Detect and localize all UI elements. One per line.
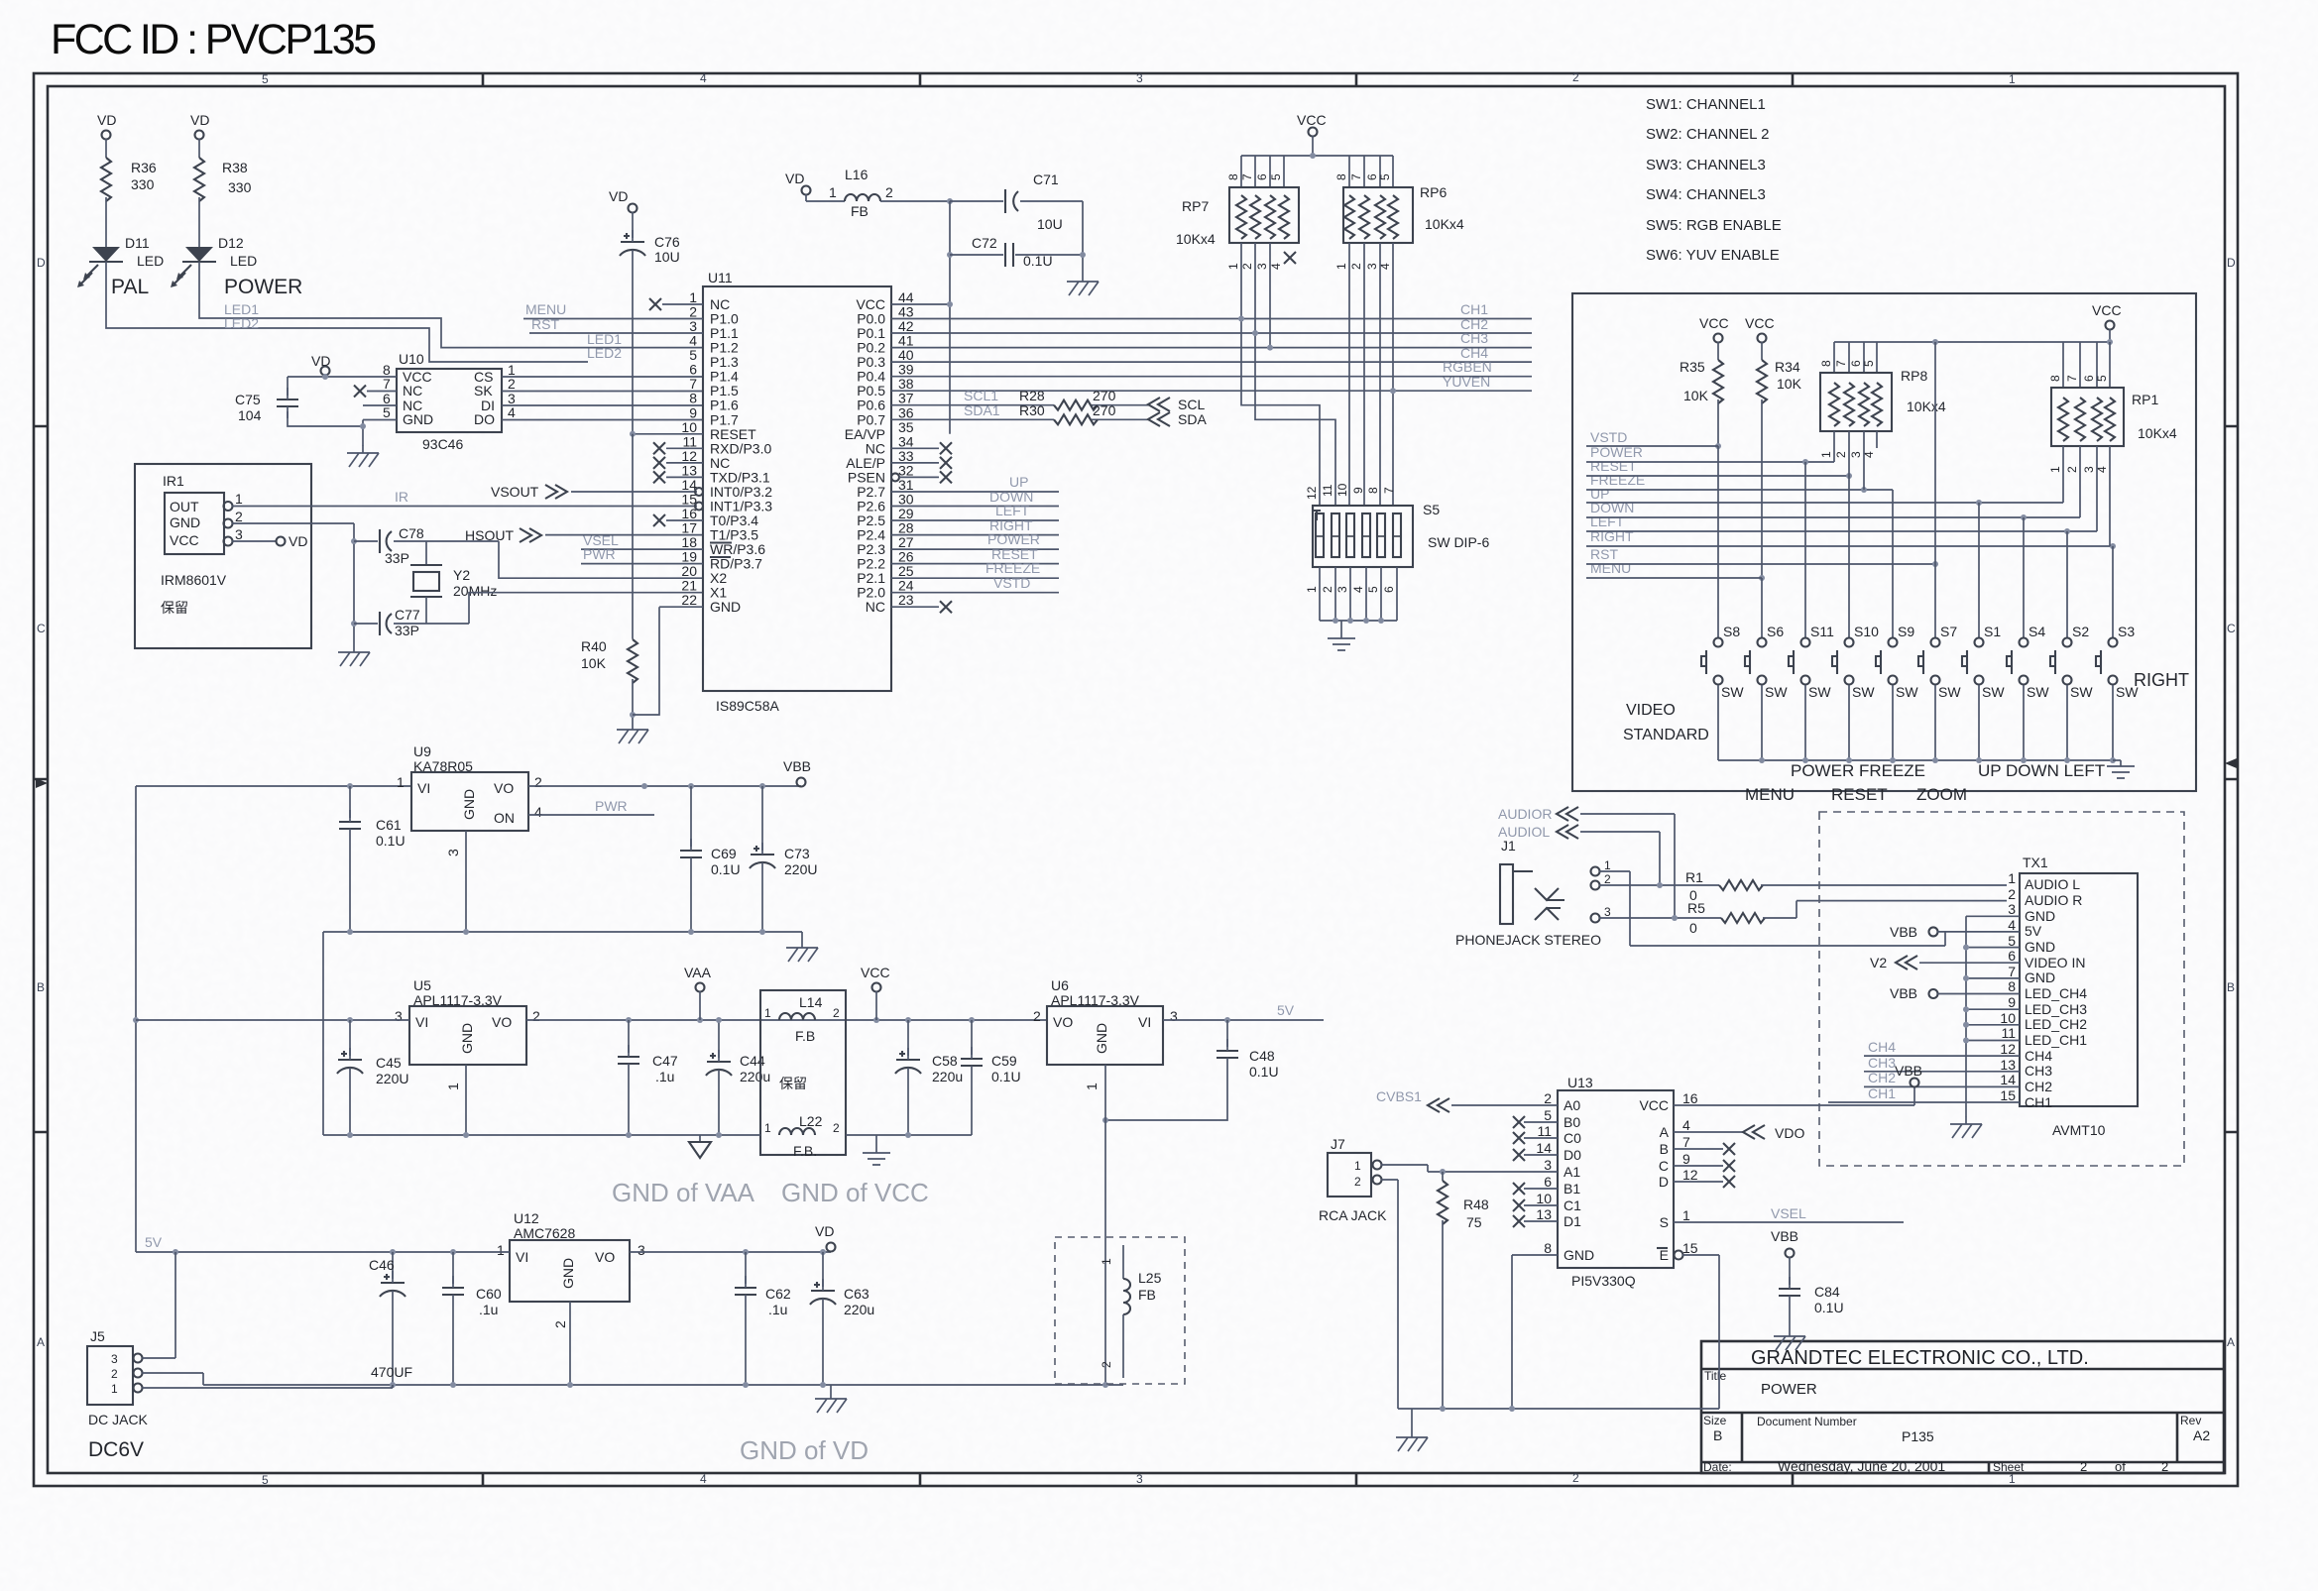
svg-text:SW6: YUV ENABLE: SW6: YUV ENABLE — [1646, 247, 1780, 264]
svg-text:5: 5 — [1366, 586, 1380, 593]
svg-text:R34: R34 — [1775, 359, 1800, 375]
svg-text:5: 5 — [689, 347, 697, 363]
svg-text:SW: SW — [1938, 684, 1961, 700]
svg-text:GND: GND — [403, 411, 433, 427]
svg-text:LED2: LED2 — [587, 345, 622, 361]
svg-text:B: B — [1660, 1141, 1669, 1157]
svg-text:3: 3 — [1849, 451, 1863, 458]
svg-text:GND: GND — [459, 1023, 475, 1054]
svg-text:R38: R38 — [222, 160, 248, 175]
svg-text:AVMT10: AVMT10 — [2052, 1122, 2106, 1138]
svg-text:AUDIO R: AUDIO R — [2025, 892, 2082, 908]
svg-text:40: 40 — [898, 347, 914, 363]
svg-text:RCA JACK: RCA JACK — [1319, 1207, 1387, 1223]
svg-text:V2: V2 — [1870, 955, 1887, 970]
svg-text:Size: Size — [1703, 1414, 1727, 1427]
svg-text:2: 2 — [2065, 466, 2079, 473]
svg-text:8: 8 — [2048, 375, 2062, 382]
svg-text:RP8: RP8 — [1901, 368, 1927, 384]
svg-text:VAA: VAA — [684, 965, 712, 980]
svg-text:.1u: .1u — [768, 1302, 787, 1317]
svg-text:2: 2 — [1572, 70, 1579, 84]
svg-text:R28: R28 — [1019, 388, 1045, 403]
svg-text:1: 1 — [1334, 263, 1348, 270]
svg-text:VO: VO — [494, 780, 514, 796]
svg-text:CH1: CH1 — [1868, 1085, 1896, 1101]
svg-text:VO: VO — [595, 1249, 615, 1265]
svg-text:L25: L25 — [1138, 1270, 1162, 1286]
svg-text:CH3: CH3 — [1460, 330, 1488, 346]
svg-text:C61: C61 — [376, 817, 402, 833]
svg-text:R40: R40 — [581, 638, 607, 654]
svg-text:2: 2 — [2008, 886, 2016, 902]
svg-text:CH2: CH2 — [2025, 1079, 2052, 1094]
svg-text:OUT: OUT — [170, 499, 199, 514]
svg-text:4: 4 — [1351, 586, 1365, 593]
svg-text:D: D — [2227, 256, 2236, 270]
svg-text:P0.3: P0.3 — [857, 354, 885, 370]
svg-text:C58: C58 — [932, 1053, 958, 1069]
svg-text:5V: 5V — [145, 1234, 163, 1250]
svg-text:S11: S11 — [1810, 624, 1834, 639]
svg-text:R1: R1 — [1685, 869, 1703, 885]
svg-text:6: 6 — [2008, 948, 2016, 964]
svg-text:VBB: VBB — [1890, 924, 1917, 940]
svg-text:IS89C58A: IS89C58A — [716, 698, 779, 714]
svg-text:CH3: CH3 — [2025, 1063, 2052, 1079]
svg-text:C75: C75 — [235, 392, 261, 407]
svg-text:POWER: POWER — [1761, 1381, 1817, 1398]
svg-text:10K: 10K — [581, 655, 607, 671]
svg-text:5: 5 — [1862, 360, 1876, 367]
svg-text:U12: U12 — [514, 1210, 539, 1226]
svg-text:GND: GND — [2025, 969, 2055, 985]
svg-text:6: 6 — [1849, 360, 1863, 367]
svg-text:LED_CH3: LED_CH3 — [2025, 1001, 2087, 1017]
svg-text:2: 2 — [532, 1008, 540, 1024]
svg-text:8: 8 — [689, 391, 697, 406]
svg-text:5V: 5V — [1277, 1002, 1295, 1018]
svg-text:GND: GND — [2025, 908, 2055, 924]
svg-text:9: 9 — [2008, 994, 2016, 1010]
svg-text:6: 6 — [1382, 586, 1396, 593]
svg-text:ON: ON — [494, 810, 515, 826]
svg-text:DC JACK: DC JACK — [88, 1412, 149, 1427]
svg-text:6: 6 — [1365, 173, 1379, 180]
svg-text:7: 7 — [2065, 375, 2079, 382]
svg-text:CH2: CH2 — [1868, 1070, 1896, 1085]
svg-text:FB: FB — [1138, 1287, 1156, 1303]
svg-text:2: 2 — [2080, 1459, 2087, 1474]
svg-text:0.1U: 0.1U — [711, 861, 741, 877]
svg-text:3: 3 — [1136, 1472, 1143, 1486]
svg-text:VD: VD — [289, 533, 307, 549]
svg-text:Rev: Rev — [2180, 1414, 2201, 1427]
svg-text:7: 7 — [383, 376, 391, 392]
svg-text:IR: IR — [395, 489, 408, 505]
svg-text:PWR: PWR — [583, 546, 616, 562]
svg-text:1: 1 — [397, 774, 405, 790]
svg-text:VD: VD — [190, 112, 209, 128]
svg-text:2: 2 — [1354, 1175, 1361, 1189]
svg-text:33P: 33P — [395, 623, 419, 638]
svg-text:VSOUT: VSOUT — [491, 484, 539, 500]
svg-text:GND of VAA: GND of VAA — [612, 1178, 755, 1207]
svg-text:2: 2 — [1100, 1361, 1113, 1368]
svg-text:APL1117-3.3V: APL1117-3.3V — [413, 992, 503, 1008]
svg-text:1: 1 — [1604, 858, 1611, 872]
svg-text:RP1: RP1 — [2132, 392, 2158, 407]
svg-text:VSTD: VSTD — [993, 575, 1030, 591]
svg-text:11: 11 — [1321, 484, 1334, 497]
svg-text:7: 7 — [2008, 964, 2016, 979]
svg-text:75: 75 — [1466, 1214, 1482, 1230]
svg-text:PI5V330Q: PI5V330Q — [1571, 1273, 1636, 1289]
svg-text:330: 330 — [228, 179, 252, 195]
svg-text:VI: VI — [1138, 1014, 1151, 1030]
svg-text:CH4: CH4 — [2025, 1048, 2052, 1064]
svg-text:C: C — [37, 622, 46, 635]
svg-text:S4: S4 — [2028, 624, 2045, 639]
svg-text:5: 5 — [262, 72, 269, 86]
svg-text:S1: S1 — [1984, 624, 2001, 639]
svg-text:GND of VCC: GND of VCC — [781, 1178, 929, 1207]
svg-text:11: 11 — [2001, 1025, 2016, 1041]
svg-text:Y2: Y2 — [453, 567, 470, 583]
svg-text:220U: 220U — [376, 1071, 408, 1086]
svg-text:T0/P3.4: T0/P3.4 — [710, 513, 758, 528]
svg-text:GND: GND — [560, 1258, 576, 1289]
svg-text:C63: C63 — [844, 1286, 869, 1302]
svg-text:R35: R35 — [1680, 359, 1705, 375]
svg-text:U11: U11 — [708, 270, 733, 285]
svg-text:D1: D1 — [1564, 1213, 1581, 1229]
svg-text:MENU: MENU — [1590, 560, 1631, 576]
svg-text:SCL1: SCL1 — [964, 388, 998, 403]
svg-text:J5: J5 — [90, 1328, 105, 1344]
svg-text:P2.5: P2.5 — [857, 513, 885, 528]
svg-text:GND: GND — [1094, 1023, 1109, 1054]
svg-text:GND: GND — [2025, 939, 2055, 955]
svg-text:A0: A0 — [1564, 1097, 1580, 1113]
svg-text:POWER: POWER — [987, 531, 1040, 547]
svg-text:F.B.: F.B. — [793, 1143, 817, 1159]
svg-text:J7: J7 — [1331, 1136, 1345, 1152]
svg-text:GRANDTEC ELECTRONIC CO., LTD.: GRANDTEC ELECTRONIC CO., LTD. — [1751, 1347, 2089, 1369]
svg-text:.1u: .1u — [479, 1302, 498, 1317]
svg-text:2: 2 — [1349, 263, 1363, 270]
svg-text:U6: U6 — [1051, 977, 1069, 993]
svg-text:LED_CH1: LED_CH1 — [2025, 1032, 2087, 1048]
svg-text:S8: S8 — [1723, 624, 1740, 639]
svg-text:330: 330 — [131, 176, 155, 192]
svg-text:1: 1 — [1100, 1258, 1113, 1265]
svg-text:A1: A1 — [1564, 1164, 1580, 1180]
svg-text:U13: U13 — [1567, 1075, 1593, 1090]
svg-text:SW: SW — [1808, 684, 1831, 700]
svg-text:POWER: POWER — [224, 276, 302, 298]
svg-text:11: 11 — [1537, 1123, 1552, 1139]
svg-text:SW: SW — [1982, 684, 2005, 700]
svg-text:保留: 保留 — [161, 600, 188, 616]
svg-text:93C46: 93C46 — [422, 436, 463, 452]
svg-text:NC: NC — [866, 440, 885, 456]
svg-text:ZOOM: ZOOM — [1916, 785, 1967, 804]
svg-text:4: 4 — [2008, 917, 2016, 933]
svg-text:220u: 220u — [932, 1069, 963, 1084]
svg-text:3: 3 — [395, 1008, 403, 1024]
svg-text:LED_CH4: LED_CH4 — [2025, 985, 2087, 1001]
svg-text:SK: SK — [474, 383, 493, 399]
svg-text:RST: RST — [531, 316, 559, 332]
svg-text:0.1U: 0.1U — [376, 833, 406, 849]
svg-text:P135: P135 — [1902, 1428, 1934, 1444]
svg-text:C47: C47 — [652, 1053, 678, 1069]
svg-text:C73: C73 — [784, 846, 810, 861]
svg-text:S6: S6 — [1767, 624, 1784, 639]
svg-text:SW: SW — [2027, 684, 2049, 700]
svg-text:B1: B1 — [1564, 1181, 1580, 1197]
svg-text:VCC: VCC — [1297, 112, 1327, 128]
svg-text:1: 1 — [764, 1006, 771, 1020]
svg-text:1: 1 — [1819, 451, 1833, 458]
svg-text:R48: R48 — [1463, 1197, 1489, 1212]
svg-text:TX1: TX1 — [2023, 855, 2048, 870]
svg-text:YUVEN: YUVEN — [1443, 374, 1490, 390]
svg-text:1: 1 — [1084, 1083, 1100, 1090]
svg-text:SW1: CHANNEL1: SW1: CHANNEL1 — [1646, 96, 1766, 113]
svg-text:0.1U: 0.1U — [991, 1069, 1021, 1084]
svg-text:A: A — [37, 1335, 45, 1349]
svg-text:8: 8 — [2008, 978, 2016, 994]
svg-text:L14: L14 — [799, 994, 823, 1010]
svg-text:0: 0 — [1689, 920, 1697, 936]
svg-text:D12: D12 — [218, 235, 244, 251]
svg-text:5: 5 — [1544, 1107, 1552, 1123]
svg-text:Sheet: Sheet — [1993, 1460, 2025, 1474]
svg-text:GND: GND — [710, 599, 741, 615]
svg-text:10K: 10K — [1683, 388, 1709, 403]
svg-text:C: C — [2227, 622, 2236, 635]
svg-text:SW: SW — [2070, 684, 2093, 700]
svg-text:7: 7 — [1240, 173, 1254, 180]
svg-text:LED: LED — [137, 253, 164, 269]
svg-text:NC: NC — [403, 383, 422, 399]
svg-text:POWER FREEZE: POWER FREEZE — [1791, 761, 1925, 780]
svg-text:1: 1 — [1305, 586, 1319, 593]
svg-text:MENU: MENU — [525, 301, 566, 317]
svg-text:B: B — [2227, 980, 2235, 994]
svg-text:VDO: VDO — [1775, 1125, 1804, 1141]
svg-text:3: 3 — [1136, 71, 1143, 85]
svg-text:15: 15 — [2000, 1087, 2016, 1103]
svg-text:GND of VD: GND of VD — [740, 1435, 869, 1465]
svg-text:NC: NC — [866, 599, 885, 615]
svg-text:S: S — [1660, 1214, 1669, 1230]
svg-text:14: 14 — [2000, 1072, 2016, 1087]
svg-text:AMC7628: AMC7628 — [514, 1225, 575, 1241]
svg-text:10: 10 — [2000, 1010, 2016, 1026]
svg-text:VI: VI — [516, 1249, 528, 1265]
svg-text:220U: 220U — [784, 861, 817, 877]
svg-text:C72: C72 — [972, 235, 997, 251]
svg-text:14: 14 — [1536, 1140, 1552, 1156]
svg-text:13: 13 — [2000, 1057, 2016, 1073]
svg-text:7: 7 — [1682, 1134, 1690, 1150]
svg-text:8: 8 — [1544, 1240, 1552, 1256]
svg-text:SDA: SDA — [1178, 411, 1207, 427]
svg-text:VCC: VCC — [1639, 1097, 1669, 1113]
svg-text:1: 1 — [497, 1242, 505, 1258]
svg-text:23: 23 — [898, 592, 914, 608]
svg-text:A2: A2 — [2193, 1427, 2210, 1443]
svg-text:1: 1 — [445, 1083, 461, 1090]
svg-text:S5: S5 — [1423, 502, 1440, 517]
svg-text:7: 7 — [1382, 487, 1396, 494]
svg-text:15: 15 — [1682, 1240, 1698, 1256]
svg-text:10: 10 — [1335, 483, 1349, 497]
svg-text:12: 12 — [1305, 486, 1319, 500]
svg-text:P2.2: P2.2 — [857, 556, 885, 572]
svg-text:APL1117-3.3V: APL1117-3.3V — [1051, 992, 1140, 1008]
svg-text:3: 3 — [445, 849, 461, 856]
svg-text:Document Number: Document Number — [1757, 1415, 1857, 1428]
svg-text:3: 3 — [689, 318, 697, 334]
svg-text:SCL: SCL — [1178, 397, 1205, 412]
svg-text:VD: VD — [815, 1223, 834, 1239]
svg-text:VSEL: VSEL — [1771, 1205, 1806, 1221]
svg-text:SW3: CHANNEL3: SW3: CHANNEL3 — [1646, 157, 1766, 173]
svg-text:CH4: CH4 — [1868, 1039, 1896, 1055]
svg-text:STANDARD: STANDARD — [1623, 727, 1709, 743]
svg-text:33P: 33P — [385, 550, 409, 566]
svg-text:1: 1 — [764, 1121, 771, 1135]
svg-text:LEFT: LEFT — [995, 503, 1030, 518]
svg-text:D: D — [1659, 1174, 1669, 1190]
svg-text:10: 10 — [1536, 1191, 1552, 1206]
svg-text:1: 1 — [1354, 1159, 1361, 1173]
svg-text:SW: SW — [1721, 684, 1744, 700]
svg-text:AUDIO L: AUDIO L — [2025, 876, 2080, 892]
svg-text:B0: B0 — [1564, 1114, 1580, 1130]
svg-text:LED2: LED2 — [224, 315, 259, 331]
svg-text:3: 3 — [637, 1242, 645, 1258]
svg-text:1: 1 — [2048, 466, 2062, 473]
svg-text:GND: GND — [170, 514, 200, 530]
svg-text:P1.6: P1.6 — [710, 398, 739, 413]
svg-text:RGBEN: RGBEN — [1443, 359, 1492, 375]
svg-text:S10: S10 — [1854, 624, 1879, 639]
svg-text:VCC: VCC — [861, 965, 890, 980]
svg-text:4: 4 — [700, 71, 707, 85]
svg-text:TXD/P3.1: TXD/P3.1 — [710, 469, 770, 485]
svg-text:UP DOWN LEFT: UP DOWN LEFT — [1978, 761, 2105, 780]
svg-text:VCC: VCC — [2092, 302, 2122, 318]
svg-text:1: 1 — [2008, 870, 2016, 886]
svg-text:of: of — [2115, 1459, 2126, 1474]
svg-text:CH1: CH1 — [1460, 301, 1488, 317]
svg-text:7: 7 — [1834, 360, 1848, 367]
svg-text:20MHz: 20MHz — [453, 583, 497, 599]
svg-text:5: 5 — [1378, 173, 1392, 180]
svg-text:IRM8601V: IRM8601V — [161, 572, 227, 588]
svg-text:470UF: 470UF — [371, 1364, 412, 1380]
svg-text:P0.1: P0.1 — [857, 325, 885, 341]
svg-text:S9: S9 — [1898, 624, 1914, 639]
svg-text:8: 8 — [1334, 173, 1348, 180]
svg-text:0.1U: 0.1U — [1814, 1300, 1844, 1315]
svg-text:F.B: F.B — [795, 1028, 815, 1044]
svg-text:9: 9 — [1351, 487, 1365, 494]
svg-text:3: 3 — [2082, 466, 2096, 473]
svg-text:LED: LED — [230, 253, 257, 269]
svg-text:CH1: CH1 — [2025, 1094, 2052, 1110]
svg-text:2: 2 — [2161, 1459, 2168, 1474]
svg-text:C48: C48 — [1249, 1048, 1275, 1064]
svg-text:C78: C78 — [399, 525, 424, 541]
svg-text:2: 2 — [1321, 586, 1334, 593]
svg-text:CVBS1: CVBS1 — [1376, 1088, 1422, 1104]
svg-text:3: 3 — [1255, 263, 1269, 270]
svg-text:26: 26 — [898, 549, 914, 565]
svg-text:VO: VO — [492, 1014, 512, 1030]
svg-text:37: 37 — [898, 391, 914, 406]
svg-text:HSOUT: HSOUT — [465, 527, 514, 543]
svg-text:A: A — [2227, 1335, 2235, 1349]
svg-text:VSTD: VSTD — [1590, 429, 1627, 445]
svg-text:SW: SW — [1852, 684, 1875, 700]
svg-text:4: 4 — [508, 404, 516, 420]
svg-text:34: 34 — [898, 433, 914, 449]
svg-text:2: 2 — [235, 509, 243, 524]
svg-text:220u: 220u — [844, 1302, 874, 1317]
svg-text:SW4: CHANNEL3: SW4: CHANNEL3 — [1646, 186, 1766, 203]
svg-text:2: 2 — [1604, 872, 1611, 886]
svg-text:.1u: .1u — [655, 1069, 674, 1084]
svg-text:SW: SW — [1896, 684, 1918, 700]
svg-text:22: 22 — [681, 592, 697, 608]
svg-text:RIGHT: RIGHT — [2134, 670, 2189, 690]
svg-text:8: 8 — [1226, 173, 1240, 180]
svg-text:2: 2 — [833, 1006, 840, 1020]
svg-text:AUDIOR: AUDIOR — [1498, 806, 1552, 822]
svg-text:5: 5 — [383, 404, 391, 420]
svg-text:B: B — [1713, 1427, 1722, 1443]
svg-text:10Kx4: 10Kx4 — [1176, 231, 1216, 247]
svg-text:VBB: VBB — [783, 758, 811, 774]
svg-text:2: 2 — [1572, 1471, 1579, 1485]
svg-text:5: 5 — [2008, 933, 2016, 949]
svg-text:1: 1 — [111, 1382, 118, 1396]
svg-text:UP: UP — [1009, 474, 1028, 490]
svg-text:S7: S7 — [1940, 624, 1957, 639]
svg-text:13: 13 — [681, 462, 697, 478]
svg-text:VD: VD — [785, 171, 804, 186]
svg-text:0.1U: 0.1U — [1249, 1064, 1279, 1080]
svg-text:U9: U9 — [413, 743, 431, 759]
svg-text:U10: U10 — [399, 351, 424, 367]
svg-text:12: 12 — [1682, 1167, 1698, 1183]
svg-text:5: 5 — [1269, 173, 1283, 180]
svg-text:10U: 10U — [654, 249, 680, 265]
svg-text:VO: VO — [1053, 1014, 1073, 1030]
svg-text:6: 6 — [2082, 375, 2096, 382]
svg-text:MENU: MENU — [1745, 785, 1795, 804]
svg-text:VCC: VCC — [170, 532, 199, 548]
svg-text:42: 42 — [898, 318, 914, 334]
svg-text:C60: C60 — [476, 1286, 502, 1302]
svg-text:2: 2 — [1834, 451, 1848, 458]
